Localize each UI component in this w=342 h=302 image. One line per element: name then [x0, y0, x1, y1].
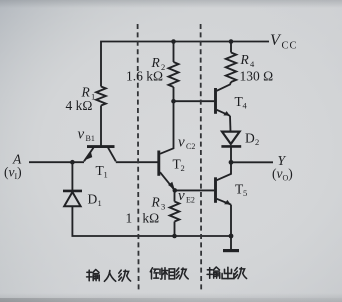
svg-text:2: 2	[255, 137, 259, 147]
resistor R4	[226, 53, 236, 83]
wire R4 to T4 collector	[217, 82, 231, 91]
svg-text:(vI): (vI)	[4, 165, 22, 182]
svg-text:V: V	[270, 32, 282, 49]
diode D1	[63, 191, 82, 206]
svg-text:1: 1	[98, 198, 102, 208]
node vE2 junction dot	[173, 188, 178, 193]
svg-text:3: 3	[161, 202, 165, 212]
wire rail to R4	[230, 42, 232, 53]
wire input line A	[29, 161, 84, 163]
wire R2 to vC2 node	[173, 87, 175, 101]
svg-text:5: 5	[243, 188, 247, 198]
wire vC2 node down to T2 collector	[160, 101, 174, 154]
svg-text:1.6 kΩ: 1.6 kΩ	[126, 69, 163, 84]
resistor R1	[96, 87, 106, 106]
svg-text:4: 4	[250, 59, 255, 69]
wire D1 to bottom rail	[72, 206, 231, 236]
svg-text:R: R	[240, 52, 250, 67]
wire T5 emitter to ground	[230, 205, 232, 236]
node R3 bottom dot	[172, 234, 177, 239]
svg-text:B1: B1	[86, 134, 95, 143]
resistor R2	[169, 62, 179, 87]
svg-text:D: D	[88, 192, 98, 207]
svg-text:4 kΩ: 4 kΩ	[66, 98, 93, 113]
svg-text:(vO): (vO)	[272, 166, 293, 183]
wire Vcc top rail	[101, 42, 269, 87]
ground	[223, 236, 239, 251]
wire vC2 node to T4 base	[174, 100, 215, 102]
svg-text:D: D	[245, 131, 255, 146]
node input junction dot	[70, 160, 75, 165]
diode D2	[221, 132, 241, 147]
wire output Y	[231, 161, 273, 163]
svg-text:2: 2	[181, 163, 185, 173]
svg-text:v: v	[178, 188, 185, 204]
svg-text:130 Ω: 130 Ω	[240, 69, 274, 84]
svg-text:CC: CC	[282, 41, 298, 52]
stage separator dashed line 2	[200, 24, 203, 291]
wire T2 emitter to T5 base	[175, 189, 214, 191]
svg-text:1 kΩ: 1 kΩ	[126, 210, 160, 225]
wire input to D1	[71, 162, 73, 190]
transistor T2	[159, 151, 175, 191]
wire T1 collector to T2 base	[116, 161, 158, 163]
svg-text:4: 4	[243, 101, 248, 111]
label stage 2 (phase splitter stage)	[150, 268, 188, 280]
svg-text:C2: C2	[186, 142, 195, 151]
wire T4 emitter to D2	[229, 116, 232, 132]
node vC2 branch dot	[171, 99, 176, 104]
stage separator dashed line 1	[138, 24, 139, 291]
svg-text:R: R	[151, 195, 161, 210]
label stage 1 (input stage)	[87, 270, 131, 282]
transistor T1	[84, 147, 116, 162]
wire rail to R2	[173, 42, 175, 63]
node R2 top dot	[171, 39, 176, 44]
node ground junction dot	[229, 234, 234, 239]
transistor T4	[216, 88, 231, 116]
svg-text:E2: E2	[186, 196, 195, 205]
node R4 top dot	[229, 39, 234, 44]
svg-text:1: 1	[104, 170, 108, 180]
wire D2 to output node	[230, 146, 232, 162]
wire vE2 to R3	[174, 190, 176, 201]
wire R3 to bottom rail	[174, 222, 176, 237]
svg-text:v: v	[178, 135, 185, 151]
label stage 3 (output stage)	[207, 267, 247, 279]
transistor T5	[216, 177, 232, 204]
svg-text:v: v	[78, 127, 85, 143]
wire R1 bottom to T1 base	[100, 106, 102, 147]
resistor R3	[170, 202, 180, 222]
node output junction dot	[229, 160, 234, 165]
wire output node to T5 collector	[217, 162, 231, 180]
